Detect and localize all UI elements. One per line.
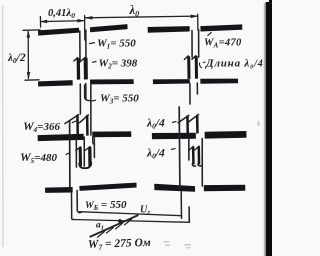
wire: left inner line to row3 bbox=[90, 84, 92, 136]
right stub bay1-2 bar 2 bbox=[195, 56, 198, 79]
faint smudges bbox=[164, 121, 260, 248]
dipole row4 left-column left arm bbox=[45, 187, 73, 193]
wire: left short line below row3 bbox=[93, 137, 95, 158]
dipole row4 right-column left arm bbox=[154, 184, 195, 192]
wire: right feed drop below row4 (riser of line A) bbox=[180, 192, 182, 219]
right stub bay3-4 bottom hooks bbox=[192, 164, 195, 166]
svg-text:W1= 550: W1= 550 bbox=[97, 38, 136, 51]
label W4=366 with leader bbox=[23, 119, 77, 134]
label λ0/4 lower with leader bbox=[146, 148, 176, 161]
label W6=550 bbox=[85, 199, 127, 212]
svg-text:WБ = 550: WБ = 550 bbox=[85, 199, 127, 212]
right stub bay3-4 slanted tops bbox=[189, 146, 193, 150]
dipole row3 left-column left arm bbox=[38, 134, 84, 141]
label λ0 (top) bbox=[129, 3, 140, 18]
right stub bay2-3 thick bar 1 bbox=[186, 115, 189, 134]
dimension λ0/2 vertical line bbox=[27, 32, 29, 79]
wire: small descender hook below row3 left bar bbox=[93, 137, 95, 145]
dimension λ0/2 arrowheads bbox=[27, 31, 30, 37]
dimension λ0/2 top extension bbox=[23, 29, 40, 31]
right stub bay1-2 slanted tops bbox=[184, 56, 188, 60]
svg-text:W4=366: W4=366 bbox=[23, 119, 60, 134]
dimension 0,41λ0 arrowheads bbox=[41, 20, 47, 23]
dipole row4 left-column right arm bbox=[79, 183, 136, 191]
wire: left transposition diagonal 1 bbox=[65, 115, 79, 124]
right stub bay3-4 thick bar 2 bbox=[198, 146, 201, 164]
stub bay2-3 thick bar 2 bbox=[86, 115, 89, 136]
wire: right feeder pair, bay 3-4 short bbox=[188, 139, 190, 161]
svg-text:WA=470: WA=470 bbox=[204, 38, 242, 50]
label W5=480 with leader bbox=[20, 150, 70, 165]
dipole row3 right-column right arm bbox=[205, 131, 247, 139]
stub bay3-4 U bottom connector bbox=[79, 163, 91, 168]
label W3=550 with leader bbox=[92, 93, 140, 106]
wire: W6 leader hook bbox=[77, 211, 81, 213]
wire: right feeder pair, bay 2-3 bbox=[189, 84, 191, 105]
label Длина λ0/4 with hook bbox=[199, 58, 263, 71]
feeder cable hatch ticks bbox=[98, 232, 105, 238]
left page-edge line bbox=[2, 5, 4, 247]
stub bay3-4 thick bar 2 bbox=[88, 147, 92, 166]
stub pair bay1-2 right bar bbox=[84, 58, 88, 80]
right stub bay3-4 thick bar 1 bbox=[192, 147, 195, 165]
dipole row2 right-column right arm bbox=[200, 79, 238, 84]
wire: left outer long feed line rows3-4 bbox=[69, 121, 71, 189]
dipole row2 right-column left arm bbox=[153, 79, 190, 84]
dipole row1 left-column left arm bbox=[38, 28, 79, 36]
label λ0/2 (left) bbox=[7, 52, 26, 65]
wire: left feed drop below row4 (to line A) bbox=[76, 191, 78, 211]
wire: right feeder pair, bay 1-2 bbox=[191, 31, 193, 58]
dipole row2 left-column left arm bbox=[38, 80, 73, 86]
label a1 bbox=[96, 221, 104, 232]
wire: line B (lower two-wire line) bbox=[73, 220, 189, 223]
svg-text:0,41λ0: 0,41λ0 bbox=[48, 7, 75, 20]
dipole row1 right-column right arm bbox=[200, 24, 242, 31]
wire: line A (upper two-wire line) bbox=[80, 212, 182, 216]
dipole row4 right-column right arm bbox=[204, 185, 246, 192]
wire: left feeder pair, bay 2-3 bbox=[79, 84, 81, 114]
dimension extension line center (x=84.6) bbox=[84, 16, 86, 41]
wire: right short tick to line B bbox=[188, 207, 190, 222]
wire: W3 label hook from feeder bbox=[85, 85, 91, 101]
dimension λ0 arrowheads bbox=[86, 16, 92, 19]
wire: right transposition diagonal 2 bbox=[189, 114, 199, 121]
junction dot on line B bbox=[118, 219, 122, 223]
dipole row3 left-column right arm bbox=[92, 131, 131, 137]
label 0,41λ0 bbox=[48, 7, 75, 20]
svg-text:W3= 550: W3= 550 bbox=[100, 93, 139, 106]
label WA=470 with leader arrow bbox=[204, 32, 242, 49]
svg-text:Длина λ0/4: Длина λ0/4 bbox=[205, 58, 264, 71]
svg-text:λ0/4: λ0/4 bbox=[146, 148, 165, 161]
right black scan border bbox=[266, 0, 272, 256]
label W1=550 with leader bbox=[89, 38, 136, 51]
dipole row1 left-column right arm bbox=[90, 24, 128, 32]
stub bay2-3 thick bar 1 bbox=[76, 115, 79, 136]
stub bay1-2 slanted tops bbox=[74, 58, 78, 61]
svg-text:W2= 398: W2= 398 bbox=[99, 58, 138, 71]
wire: left feeder pair, bay 3-4 short bbox=[75, 139, 77, 167]
svg-text:W5=480: W5=480 bbox=[20, 150, 57, 165]
dimension λ0 line bbox=[85, 16, 197, 18]
label Uг (generator) bbox=[140, 205, 150, 217]
svg-text:λ0/2: λ0/2 bbox=[7, 52, 26, 65]
stub bay3-4 thick bar 1 bbox=[79, 147, 82, 166]
wire: left transposition diagonal 2 bbox=[79, 115, 88, 123]
label W7=275 Ом bbox=[88, 235, 151, 252]
wire: left feed drop below row4 (to line B) bbox=[72, 192, 74, 219]
label W2=398 with leader bbox=[92, 58, 138, 71]
dipole row1 right-column left arm bbox=[148, 26, 190, 33]
dipole row2 left-column right arm bbox=[90, 79, 134, 84]
wire: right inner line to row4 bbox=[201, 139, 203, 187]
right stub bay1-2 bar 1 bbox=[187, 56, 190, 79]
dimension λ0/2 bottom extension hook bbox=[25, 79, 39, 81]
feeder cable W7 diagonal bbox=[90, 215, 137, 236]
stub bay3-4 slanted tops bbox=[76, 147, 81, 151]
stub pair bay1-2 left bar bbox=[77, 58, 81, 80]
label λ0/4 upper with leader bbox=[146, 118, 177, 131]
wire: right outer long feed line bbox=[178, 107, 181, 188]
dimension λ0 right extension line bbox=[197, 14, 199, 30]
wire: right transposition diagonal 1 bbox=[178, 115, 189, 122]
dimension 0,41λ0 line bbox=[41, 21, 84, 22]
right stub bay2-3 thick bar 2 bbox=[196, 115, 199, 134]
svg-text:λ0/4: λ0/4 bbox=[146, 118, 165, 131]
dimension 0,41λ0 left tick bbox=[39, 17, 41, 28]
wire: left feeder pair, bay 1-2 bbox=[79, 31, 81, 62]
dipole row3 right-column left arm bbox=[152, 133, 196, 139]
